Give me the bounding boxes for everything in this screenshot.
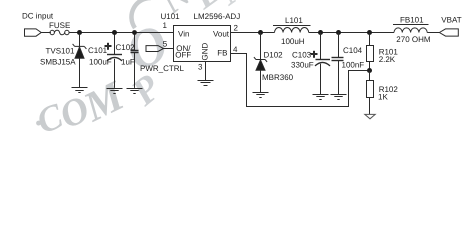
resistor R102 1K: [367, 71, 374, 115]
wire: [79, 33, 81, 47]
ground: [127, 89, 143, 94]
svg-text:MBR360: MBR360: [262, 73, 294, 82]
node: [258, 30, 263, 35]
svg-text:C102: C102: [116, 43, 136, 52]
wire: [69, 32, 79, 34]
svg-text:1: 1: [163, 21, 168, 30]
resistor R101 2.2K: [367, 33, 374, 71]
svg-text:TVS101: TVS101: [46, 47, 75, 56]
capacitor C103 330uF: [311, 51, 331, 94]
svg-text:2.2K: 2.2K: [379, 55, 396, 64]
capacitor C104 wire: [338, 33, 340, 58]
svg-text:1uF: 1uF: [121, 57, 135, 66]
svg-text:330uF: 330uF: [291, 61, 314, 70]
wire: [260, 33, 262, 60]
port PWR_CTRL: [146, 46, 164, 52]
svg-text:DC input: DC input: [22, 12, 54, 21]
svg-text:FB101: FB101: [400, 15, 424, 24]
svg-text:2: 2: [234, 24, 239, 33]
capacitor C101 100uF: [105, 43, 123, 88]
svg-text:D102: D102: [264, 51, 284, 60]
svg-text:3: 3: [198, 63, 203, 72]
wire Vout pin 2: [231, 32, 275, 34]
svg-text:C104: C104: [343, 46, 363, 55]
wire input rail: [80, 32, 174, 34]
TVS diode TVS101 SMBJ15A: [73, 44, 87, 88]
node input junction: [77, 30, 82, 35]
node: [112, 30, 117, 35]
watermark: [26, 0, 258, 141]
ground: [72, 88, 88, 93]
svg-text:Vout: Vout: [213, 29, 230, 38]
node feedback junction: [367, 68, 372, 73]
capacitor C101 wire: [114, 33, 116, 55]
fuse FUSE: [50, 30, 69, 35]
diode D102 MBR360: [254, 57, 267, 92]
svg-text:4: 4: [233, 45, 238, 54]
wire: [164, 48, 174, 50]
svg-text:PWR_CTRL: PWR_CTRL: [140, 64, 185, 73]
capacitor C102 wire: [134, 33, 136, 51]
ground: [313, 95, 329, 100]
ferrite bead FB101 270 OHM: [393, 25, 429, 33]
connector VBAT: [439, 29, 458, 36]
svg-text:C101: C101: [88, 46, 108, 55]
ground: [107, 89, 123, 94]
node: [336, 30, 341, 35]
connector DC input: [25, 29, 42, 36]
wire FB pin 4 feedback: [231, 54, 370, 107]
svg-text:FUSE: FUSE: [49, 21, 70, 30]
svg-text:U101: U101: [161, 12, 181, 21]
capacitor C102 1uF: [131, 51, 139, 88]
svg-text:100uH: 100uH: [281, 37, 305, 46]
svg-text:SMBJ15A: SMBJ15A: [40, 57, 76, 66]
svg-text:Vin: Vin: [178, 29, 189, 38]
node: [367, 30, 372, 35]
svg-text:OFF: OFF: [175, 51, 191, 60]
op-amp U101 LM2596-ADJ box: [174, 26, 231, 62]
svg-text:GND: GND: [201, 43, 210, 61]
wire: [427, 32, 439, 34]
wire GND pin 3: [205, 62, 207, 81]
wire output rail: [309, 32, 394, 34]
svg-text:100nF: 100nF: [342, 60, 365, 69]
svg-text:C103: C103: [292, 51, 312, 60]
ground: [253, 93, 269, 98]
inductor L101 100uH: [273, 26, 311, 33]
capacitor C103 wire: [320, 33, 322, 60]
node: [132, 30, 137, 35]
svg-text:LM2596-ADJ: LM2596-ADJ: [194, 12, 241, 21]
ground power arrow: [365, 114, 375, 118]
svg-text:270 OHM: 270 OHM: [396, 35, 431, 44]
wire: [41, 32, 51, 34]
capacitor C104 100nF: [332, 58, 344, 95]
ground: [331, 95, 347, 100]
svg-text:1K: 1K: [378, 92, 388, 101]
node: [318, 30, 323, 35]
svg-text:100uF: 100uF: [89, 57, 112, 66]
svg-text:VBAT: VBAT: [441, 15, 461, 24]
ground: [198, 81, 214, 86]
svg-text:FB: FB: [217, 48, 227, 57]
svg-text:5: 5: [163, 39, 168, 48]
svg-text:L101: L101: [285, 16, 303, 25]
